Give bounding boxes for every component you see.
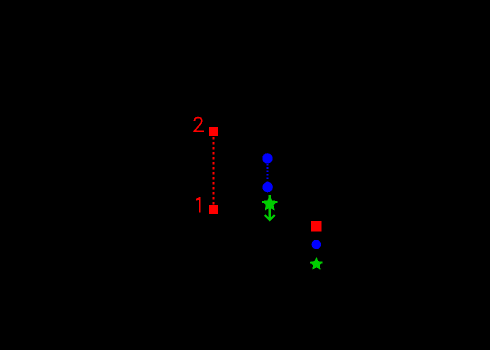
dotted blue line between circles [267,164,269,182]
green star marker [262,195,278,210]
marker square level 2 [209,127,218,136]
green down arrow [265,195,275,220]
blue data point upper [262,153,272,163]
legend green star [310,257,323,270]
legend red square [311,221,322,232]
label 2 [194,118,204,132]
dotted red line between level markers [212,137,214,205]
marker square level 1 [209,205,218,214]
legend blue circle [312,240,322,250]
blue data point lower [262,182,272,192]
label 1 [196,197,201,212]
